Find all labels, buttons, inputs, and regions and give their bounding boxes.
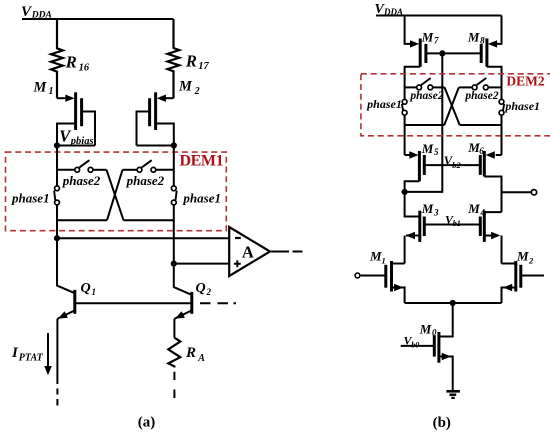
node dot right branch [171,142,177,148]
transistor Q2 PNP [196,281,212,297]
switch phase1 left (a) [55,186,60,191]
wire left vertical into DEM1 [56,146,58,186]
svg-text:M: M [33,79,48,95]
transistor M8 PMOS [467,29,485,45]
wire tail rail [405,302,502,304]
node dot M5 drain [402,189,408,195]
op-amp U1 [229,227,270,276]
wire bottom horizontals DEM2 [405,124,445,126]
resistor R17 [168,19,180,98]
svg-text:DEM2: DEM2 [506,74,544,89]
svg-text:1: 1 [92,287,97,297]
transistor M1 (a) PMOS diode-connected [33,79,54,97]
svg-text:Q: Q [81,281,91,296]
current IPTAT arrow [11,345,44,364]
resistor R16 [51,19,63,98]
svg-text:A: A [197,353,205,364]
switch phase1 left (b) [402,99,407,104]
wire Q1 emitter down [56,319,58,384]
wire to op-amp minus input [57,237,229,239]
label (b) [433,415,451,431]
svg-text:M: M [369,249,382,264]
svg-text:phase2: phase2 [409,90,443,102]
svg-text:1: 1 [49,86,54,97]
switch phase1 right (a) [173,146,175,186]
node Vb0 label [404,334,420,350]
node Vb2 label [444,154,462,170]
transistor Q1 PNP [81,281,97,297]
node dot plus [171,261,177,267]
wire left vertical below phase1 (a) [56,205,58,238]
svg-text:M: M [421,201,434,216]
svg-text:phase2: phase2 [464,90,498,102]
DEM2 label [506,74,544,89]
wire dashed below RA [173,372,175,398]
svg-text:(b): (b) [433,415,451,431]
node dot minus [54,235,60,241]
svg-text:5: 5 [434,147,439,157]
svg-text:phase2: phase2 [126,173,165,188]
svg-text:DEM1: DEM1 [180,153,224,170]
svg-text:M: M [467,29,480,44]
svg-text:17: 17 [198,61,209,72]
node VDDA label (b) [375,2,404,17]
svg-text:M: M [419,322,432,337]
svg-text:M: M [516,249,529,264]
transistor M3 NMOS cascode [421,201,439,217]
switch phase2 right (a) [107,170,123,220]
svg-text:2: 2 [528,255,534,265]
svg-text:phase1: phase1 [366,97,402,111]
svg-text:phase1: phase1 [504,99,540,113]
transistor M5 PMOS cascode [421,141,439,157]
DEM1 dashed box [6,152,227,231]
resistor RA [168,338,180,368]
wire Vb2 gate line [424,164,480,166]
svg-text:R: R [185,51,197,70]
svg-text:M: M [178,79,193,95]
svg-text:7: 7 [434,36,439,46]
node Vpbias label [59,126,93,147]
wire Q2 emitter down [173,319,175,338]
transistor M2 (b) NMOS input [516,249,534,266]
wire cross diagonal A (a) [107,170,124,220]
node dot Vpbias left [54,142,60,148]
switch phase2 right (b) [444,87,459,125]
wire Vpbias rail left [57,145,95,147]
switch phase2 left (b) [405,86,417,88]
svg-text:phase1: phase1 [182,190,221,205]
switch phase2 left (a) [57,169,74,171]
node dot tail [450,300,456,306]
ground [446,390,460,393]
transistor M2 (a) PMOS diode-connected [178,79,200,97]
svg-text:2: 2 [194,86,200,97]
svg-text:A: A [242,242,254,261]
transistor M4 NMOS cascode [467,201,485,217]
svg-text:phase2: phase2 [62,173,101,188]
wire bottom horizontals DEM1 [57,219,107,221]
wire Vb1 gate line [424,224,480,226]
wire to op-amp plus input [174,263,229,265]
svg-text:Q: Q [196,281,206,296]
DEM2 dashed box [361,74,550,136]
svg-text:R: R [65,53,77,72]
wire Q1-Q2 base line [75,302,192,304]
svg-text:M: M [421,141,434,156]
svg-text:3: 3 [433,207,439,217]
svg-text:phase1: phase1 [11,190,50,205]
transistor M7 PMOS [421,29,439,45]
wire dashed below Q1 [56,389,58,406]
wire cross diagonal A (b) [445,87,460,125]
svg-text:I: I [11,345,19,361]
transistor M6 PMOS cascode [467,140,484,156]
wire center vertical bias [405,53,443,192]
wire VDDA rail (b) [376,15,502,17]
wire verticals below phase1 (b) [404,115,406,155]
switch phase1 right (b) [499,99,504,104]
svg-text:pbias: pbias [70,136,94,147]
wire output tap [502,191,532,193]
svg-text:b2: b2 [452,160,461,170]
svg-text:16: 16 [79,62,90,73]
wire base dashed right [200,302,236,304]
DEM1 label [180,153,224,170]
node output open circle [531,190,536,195]
svg-text:R: R [185,345,196,361]
wire VDDA rail (a) [22,18,174,20]
svg-text:PTAT: PTAT [19,353,44,364]
svg-text:1: 1 [382,255,386,265]
wire Vpbias rail right [137,145,174,147]
svg-text:M: M [421,29,434,44]
svg-text:(a): (a) [138,415,156,431]
wire right vertical below phase1 (a) [173,205,175,263]
transistor M1 (b) NMOS input [369,249,386,266]
svg-text:b1: b1 [453,219,461,228]
node VDDA label (a) [21,4,52,21]
label (a) [138,415,156,431]
node dot M7 M8 gates [439,50,445,56]
svg-text:M: M [467,201,480,216]
svg-text:2: 2 [206,287,212,297]
transistor M0 NMOS tail [419,322,437,338]
wire op-amp output with dash [270,251,289,253]
node Vb1 label [445,212,461,228]
